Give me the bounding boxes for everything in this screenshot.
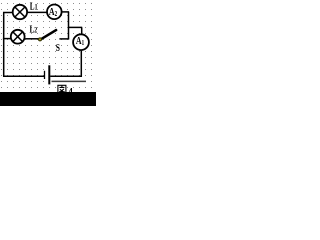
- svg-text:S: S: [56, 42, 60, 53]
- svg-text:L1: L1: [30, 0, 38, 11]
- svg-text:L2: L2: [30, 23, 38, 34]
